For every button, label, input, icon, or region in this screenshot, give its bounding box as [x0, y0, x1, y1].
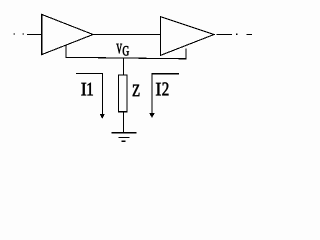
label I1, 1 glyph	[88, 83, 93, 96]
node: right continuation dot	[236, 34, 237, 35]
label I1 (current), I glyph	[81, 83, 86, 95]
wire: Z to ground	[122, 112, 124, 133]
wire: input to U1	[27, 33, 42, 35]
op-amp U2	[160, 17, 214, 56]
label VG, subscript G glyph	[123, 46, 129, 56]
label Z (impedance value)	[133, 85, 140, 96]
node: right continuation dash	[247, 33, 253, 35]
wire: ground bus	[66, 57, 187, 59]
wire: U1 output to U2 input	[94, 33, 161, 35]
wire: U1 bottom tap	[65, 45, 67, 58]
label I2, 2 glyph	[162, 82, 168, 95]
current arrow I2	[149, 74, 179, 118]
wire: U2 bottom tap	[185, 48, 187, 59]
impedance Z	[118, 75, 127, 112]
node: left continuation dots	[13, 33, 24, 34]
current arrow I1	[76, 73, 105, 119]
label VG (node voltage), V glyph	[116, 44, 122, 54]
label I2 (current), I glyph	[156, 83, 161, 95]
op-amp U1	[42, 14, 93, 54]
ground	[112, 133, 137, 141]
wire: bus to impedance Z	[122, 58, 124, 75]
wire: U2 output	[217, 33, 233, 35]
